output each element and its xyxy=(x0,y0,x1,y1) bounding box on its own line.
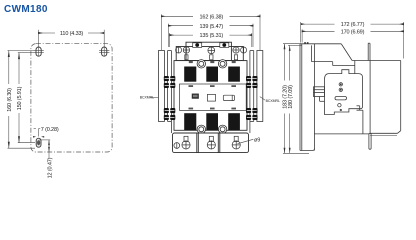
svg-text:162 (6.38): 162 (6.38) xyxy=(200,14,224,20)
svg-text:BCXMRL: BCXMRL xyxy=(266,99,280,103)
svg-text:135 (5.31): 135 (5.31) xyxy=(200,33,224,39)
svg-text:139 (5.47): 139 (5.47) xyxy=(200,24,224,30)
svg-text:150 (5.91): 150 (5.91) xyxy=(17,86,23,110)
svg-text:170 (6.69): 170 (6.69) xyxy=(341,29,365,35)
svg-text:180 (7.09): 180 (7.09) xyxy=(288,85,294,109)
svg-text:12 (0.47): 12 (0.47) xyxy=(47,157,53,178)
svg-text:110 (4.33): 110 (4.33) xyxy=(60,31,83,37)
svg-text:BCXMRL: BCXMRL xyxy=(140,96,154,100)
svg-text:CWM180: CWM180 xyxy=(4,4,48,15)
svg-text:160 (6.30): 160 (6.30) xyxy=(7,88,13,112)
svg-text:ø9: ø9 xyxy=(254,138,260,144)
svg-text:172 (6.77): 172 (6.77) xyxy=(341,22,365,28)
svg-text:7 (0.28): 7 (0.28) xyxy=(41,127,59,133)
